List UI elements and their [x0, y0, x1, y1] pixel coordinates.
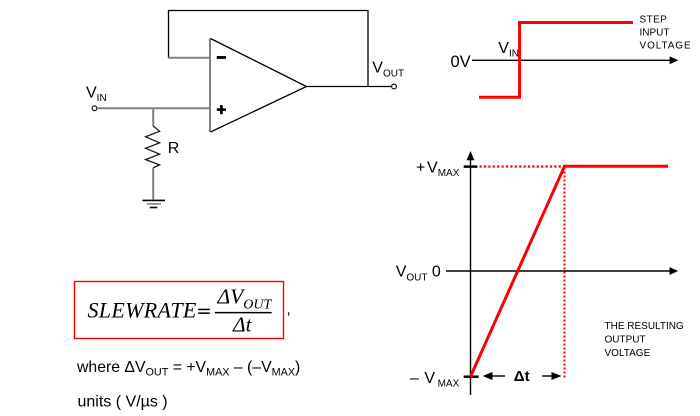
ground [143, 200, 166, 207]
step input waveform [479, 23, 633, 98]
node VIN terminal [92, 106, 97, 111]
svg-text:STEPINPUTVOLTAGE: STEPINPUTVOLTAGE [640, 14, 692, 51]
wire inverting input stub [168, 57, 211, 59]
time axis (step input graph) [472, 56, 678, 64]
dotted saturation level line [480, 165, 563, 167]
svg-text:VIN: VIN [498, 40, 519, 60]
svg-text:Δt: Δt [232, 313, 253, 337]
wire feedback loop [169, 11, 369, 87]
-VMAX tick [464, 375, 479, 378]
svg-text:VIN: VIN [86, 84, 107, 104]
svg-text:–VMAX: –VMAX [410, 370, 460, 390]
node VOUT terminal [392, 84, 397, 89]
delta-t left arrow [483, 372, 506, 380]
svg-text:where ΔVOUT = +VMAX – (–VMAX): where ΔVOUT = +VMAX – (–VMAX) [76, 359, 300, 379]
svg-text:VOUT: VOUT [372, 59, 404, 79]
svg-text:SLEWRATE: SLEWRATE [88, 297, 197, 322]
svg-text:VOUT 0: VOUT 0 [396, 264, 441, 284]
svg-text:units ( V/µs ): units ( V/µs ) [78, 394, 168, 411]
op-amp non-inverting input marker [217, 105, 226, 114]
svg-text:ΔVOUT: ΔVOUT [217, 284, 273, 312]
svg-text:THE RESULTINGOUTPUTVOLTAGE: THE RESULTINGOUTPUTVOLTAGE [605, 321, 684, 359]
svg-text:R: R [168, 140, 180, 157]
wire input [97, 107, 211, 109]
wire output [307, 86, 392, 88]
time axis (output graph) [446, 267, 678, 275]
output saturation level [563, 165, 668, 168]
slewing ramp [471, 166, 565, 376]
output voltage axis (vertical) [467, 151, 475, 395]
dotted slew time line [564, 168, 566, 380]
+VMAX tick [464, 165, 478, 168]
svg-text:0V: 0V [451, 53, 471, 71]
svg-text:Δt: Δt [514, 368, 530, 385]
delta-t right arrow [542, 372, 562, 380]
slew rate formula box [75, 282, 284, 339]
slew rate formula [88, 284, 273, 336]
svg-text:,: , [287, 301, 291, 318]
svg-text:+VMAX: +VMAX [416, 159, 460, 179]
resistor R [146, 108, 160, 199]
op-amp inverting input marker [217, 56, 226, 59]
op-amp U1 [210, 39, 307, 133]
